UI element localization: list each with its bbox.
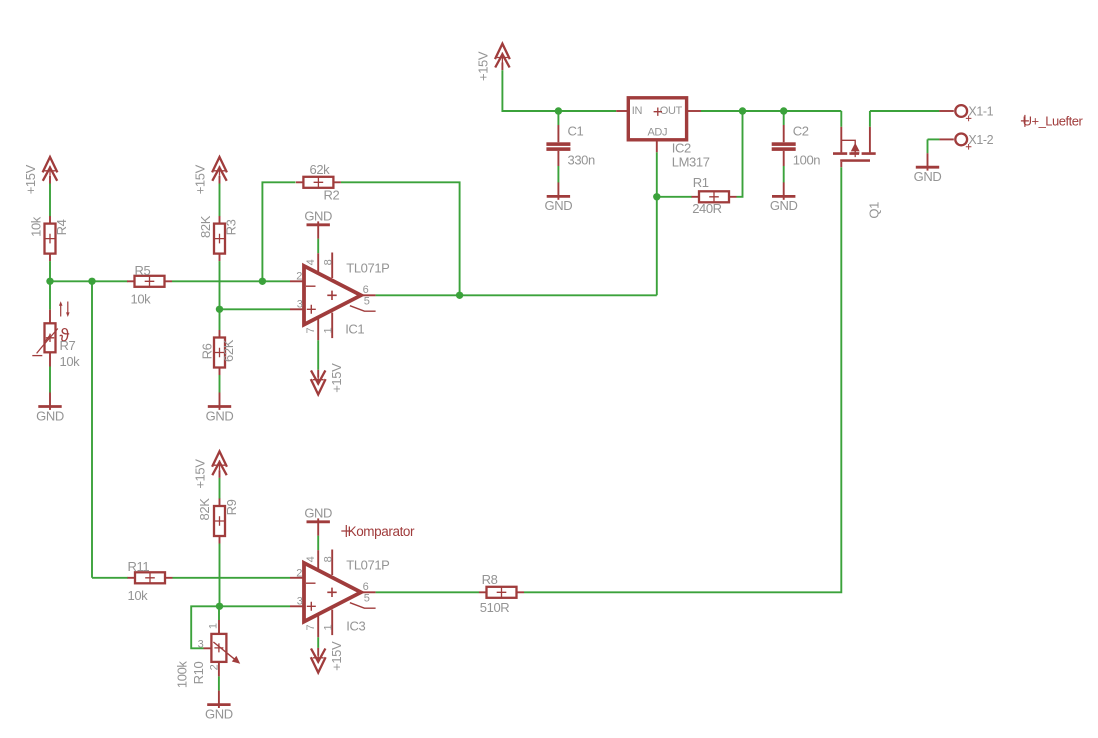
svg-text:10k: 10k: [128, 588, 149, 603]
voltage regulator IC2 LM317: [616, 98, 710, 170]
junction node TEMP at R4/R7 tap: [46, 278, 53, 285]
IC3 pin 7 (V-): [317, 615, 319, 638]
svg-text:R7: R7: [60, 338, 76, 353]
svg-text:R6: R6: [200, 343, 215, 359]
svg-text:LM317: LM317: [672, 155, 710, 170]
svg-text:GND: GND: [545, 198, 573, 213]
IC1 pin 6 output stub: [361, 294, 376, 296]
svg-text:OUT: OUT: [660, 105, 683, 117]
svg-text:+15V: +15V: [329, 363, 344, 393]
svg-text:R11: R11: [128, 559, 150, 574]
R2 name/value labels: [310, 162, 340, 203]
wire ADJ node down to IC1 output: [656, 197, 658, 295]
wire node REF to IC1 pin 3: [220, 308, 291, 310]
connector pin X1-1: [939, 105, 993, 122]
wire +15V to R9: [219, 478, 221, 499]
IC1 name/type labels: [345, 261, 389, 337]
ground GND (below R6): [206, 393, 234, 424]
wire IC2 OUT rail: [701, 110, 841, 112]
svg-text:2: 2: [296, 568, 302, 580]
resistor R6 62K: [214, 330, 225, 375]
svg-text:R8: R8: [482, 572, 498, 587]
svg-text:2: 2: [296, 271, 302, 283]
resistor R11 10k: [128, 572, 173, 583]
wire X1-2 to GND: [928, 138, 940, 140]
wire R6 to GND: [219, 375, 221, 393]
IC1 pin 4 (V+): [317, 253, 319, 273]
R8 name/value labels: [480, 572, 509, 615]
IC3 pin 4 (V+): [317, 550, 319, 570]
svg-text:6: 6: [363, 284, 369, 296]
connector pin X1-2: [939, 133, 993, 150]
R6 name/value labels: [200, 339, 237, 362]
wire R1 up to OUT rail: [737, 111, 743, 197]
wire node TEMP to R5: [50, 280, 128, 282]
IC1 pin 5 stub: [350, 306, 376, 312]
svg-text:R1: R1: [693, 175, 709, 190]
svg-text:7: 7: [305, 328, 317, 334]
svg-text:Q1: Q1: [866, 202, 881, 219]
svg-text:510R: 510R: [480, 600, 509, 615]
junction IC1 inverting node: [259, 278, 266, 285]
junction node SET at IC3 pin 3: [216, 603, 223, 610]
IC1 pin 7 (V-): [317, 318, 319, 341]
wire IC1 output to LM317 ADJ net: [376, 294, 657, 296]
wire node SET to IC3 pin 3: [220, 605, 291, 607]
wire IC3 pin 7 to supply arrow: [317, 637, 319, 648]
power +15V supply P+3 (main rail): [476, 44, 510, 81]
wire GND to IC3 pin 4: [317, 536, 319, 551]
capacitor C2 100n: [772, 111, 821, 183]
wire to R11: [92, 577, 128, 579]
svg-text:IC3: IC3: [346, 619, 365, 634]
wire node SET to R10 wiper: [191, 606, 219, 648]
power +15V supply P+2 (R3 column): [193, 157, 227, 194]
svg-text:2: 2: [208, 664, 220, 670]
IC3 pin 5 stub: [350, 603, 376, 609]
svg-text:R2: R2: [324, 188, 340, 203]
IC3 pin 2 stub: [290, 577, 305, 579]
svg-text:4: 4: [305, 556, 317, 562]
svg-text:3: 3: [297, 596, 303, 608]
svg-text:82K: 82K: [197, 498, 212, 521]
ground GND (below R10): [205, 691, 233, 722]
svg-text:GND: GND: [36, 408, 64, 423]
junction C2 tap on OUT rail: [780, 107, 787, 114]
svg-text:3: 3: [198, 638, 204, 650]
wire R10 to GND: [218, 676, 220, 690]
wire node TEMP down to R7: [49, 281, 51, 309]
power +15V supply P+4 (R9 column): [193, 451, 227, 488]
svg-text:R5: R5: [135, 263, 151, 278]
svg-text:TL071P: TL071P: [346, 261, 389, 276]
wire GND to IC1 pin 4: [317, 239, 319, 254]
svg-text:1: 1: [208, 623, 220, 629]
svg-text:GND: GND: [770, 198, 798, 213]
svg-text:Komparator: Komparator: [348, 524, 415, 539]
svg-text:4: 4: [305, 259, 317, 265]
power +15V supply P+1 (left column): [23, 157, 57, 194]
power +15V supply (below IC1, pointing down): [311, 363, 344, 395]
wire R9 to node SET (crosses pin2 net): [219, 544, 221, 607]
svg-text:ADJ: ADJ: [648, 127, 668, 139]
wire X1-2 GND drop: [927, 139, 929, 153]
svg-text:1: 1: [323, 625, 335, 631]
wire +15V rail to IC2 IN: [502, 70, 616, 111]
R3 name/value labels: [198, 215, 238, 238]
ground GND (below R7): [36, 393, 64, 424]
wire node REF to R6: [219, 309, 221, 330]
svg-text:82K: 82K: [198, 215, 213, 238]
IC1 pin number labels: [296, 259, 369, 333]
wire ADJ node to R1: [657, 196, 692, 198]
wire node TEMP down to R11: [91, 281, 93, 578]
resistor R8 510R: [479, 587, 524, 598]
svg-text:240R: 240R: [692, 201, 721, 216]
net label U+_Luefter: [1021, 113, 1084, 128]
wire R2 to IC1 output: [341, 182, 460, 295]
svg-text:3: 3: [297, 299, 303, 311]
IC1 pin 8: [331, 253, 333, 279]
svg-text:62K: 62K: [221, 339, 236, 362]
wire Q1 drain to X1-1: [870, 110, 940, 112]
svg-text:7: 7: [305, 625, 317, 631]
svg-text:10k: 10k: [131, 291, 152, 306]
svg-text:X1-2: X1-2: [968, 133, 993, 147]
wire +15V to R4: [49, 184, 51, 217]
svg-text:+15V: +15V: [193, 459, 208, 489]
svg-text:+15V: +15V: [193, 164, 208, 194]
svg-text:GND: GND: [914, 169, 942, 184]
svg-text:5: 5: [364, 593, 370, 605]
R5 name/value labels: [131, 263, 152, 306]
svg-text:GND: GND: [206, 408, 234, 423]
svg-text:1: 1: [323, 328, 335, 334]
svg-text:R3: R3: [224, 219, 239, 235]
svg-text:330n: 330n: [568, 153, 595, 168]
junction IC1 output / feedback: [456, 292, 463, 299]
net label Komparator: [341, 524, 415, 539]
wire node SET to R10 pin 1: [218, 606, 220, 620]
IC1 pin 3 stub: [290, 308, 305, 310]
junction node REF at R3/R6 tap: [216, 306, 223, 313]
resistor R2 62k (feedback): [296, 177, 341, 188]
svg-text:6: 6: [363, 581, 369, 593]
R11 name/value labels: [128, 559, 150, 603]
transistor Q1 p-channel MOSFET: [833, 111, 881, 219]
svg-text:R10: R10: [191, 662, 206, 685]
junction ADJ / R1 / IC1-output node: [653, 193, 660, 200]
svg-text:5: 5: [364, 296, 370, 308]
IC3 pin number labels: [296, 556, 369, 630]
capacitor C1 330n: [546, 111, 595, 183]
svg-text:X1-1: X1-1: [968, 105, 993, 119]
svg-text:R4: R4: [54, 219, 69, 235]
op-amp IC1 TL071P triangle: [304, 266, 361, 325]
thermistor R7 10k (temperature sensor): [32, 301, 80, 369]
ground GND (above IC1 pin 4): [304, 209, 332, 239]
resistor R1 240R: [692, 191, 737, 202]
wire IC1 pin 7 to supply arrow: [317, 340, 319, 370]
svg-text:IC2: IC2: [672, 141, 691, 156]
wire IC3 output to R8: [376, 591, 479, 593]
ground GND (above IC3 pin 4): [304, 506, 332, 536]
IC3 pin 8: [331, 550, 333, 576]
resistor R9 82K: [214, 499, 225, 544]
wire R5 to IC1 pin 2 (inverting input): [172, 280, 290, 282]
svg-text:10k: 10k: [60, 354, 81, 369]
IC3 name/type labels: [346, 558, 389, 634]
wire R7 to GND: [49, 367, 51, 393]
R1 name/value labels: [692, 175, 721, 216]
svg-text:8: 8: [323, 556, 335, 562]
resistor R5 10k: [127, 276, 172, 287]
svg-text:62k: 62k: [310, 162, 331, 177]
op-amp IC3 TL071P triangle: [304, 563, 361, 622]
svg-text:R9: R9: [224, 499, 239, 515]
svg-text:IN: IN: [632, 105, 643, 117]
svg-text:GND: GND: [304, 506, 332, 521]
wire IC2 ADJ down: [656, 152, 658, 197]
svg-text:C2: C2: [793, 124, 809, 139]
ground GND (at X1-2): [914, 153, 942, 184]
IC3 pin 1: [331, 610, 333, 636]
svg-text:C1: C1: [568, 124, 584, 139]
resistor R3 82K: [214, 216, 225, 261]
IC3 pin 3 stub: [290, 605, 305, 607]
power +15V supply (below IC3, pointing down): [311, 641, 344, 673]
IC3 pin 6 output stub: [361, 591, 376, 593]
junction R1 riser on OUT rail: [739, 107, 746, 114]
potentiometer R10 100k: [175, 620, 241, 688]
junction C1 tap on +15V rail: [555, 107, 562, 114]
R7 current arrows: [61, 302, 68, 317]
R9 name/value labels: [197, 498, 239, 521]
svg-text:U+_Luefter: U+_Luefter: [1023, 113, 1084, 128]
wire R3 to node REF (crosses pin2 net): [219, 261, 221, 309]
wire feedback node up to R2: [262, 182, 295, 281]
ground GND (below C1): [545, 182, 573, 213]
svg-text:+15V: +15V: [476, 51, 491, 81]
svg-text:GND: GND: [304, 209, 332, 224]
R4 name/value labels: [29, 216, 69, 237]
svg-text:+15V: +15V: [23, 164, 38, 194]
svg-text:+15V: +15V: [329, 641, 344, 671]
junction node TEMP / comparator branch: [88, 278, 95, 285]
wire +15V to R3: [219, 184, 221, 217]
svg-text:100k: 100k: [175, 661, 190, 688]
IC1 pin 2 stub: [290, 280, 305, 282]
svg-text:8: 8: [323, 259, 335, 265]
wire R4 to node TEMP: [49, 261, 51, 281]
svg-text:TL071P: TL071P: [346, 558, 389, 573]
ground GND (below C2): [770, 182, 798, 213]
svg-text:10k: 10k: [29, 216, 44, 237]
svg-text:GND: GND: [205, 706, 233, 721]
svg-text:IC1: IC1: [345, 322, 364, 337]
resistor R4 10k: [45, 216, 56, 261]
wire R11 to IC3 pin 2 (crosses R9 column): [173, 577, 291, 579]
wire R8 to Q1 gate: [524, 167, 841, 592]
IC1 pin 1: [331, 313, 333, 339]
svg-text:100n: 100n: [793, 153, 820, 168]
